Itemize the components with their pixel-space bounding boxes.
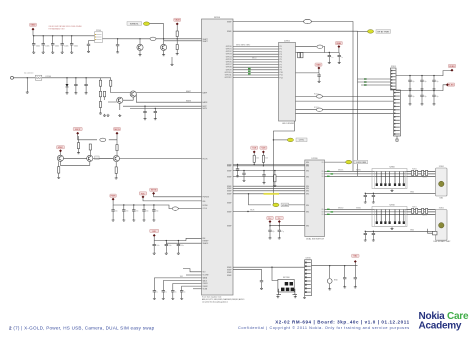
svg-text:X2800: X2800	[389, 166, 394, 168]
wire T2-T3	[93, 157, 113, 159]
power management IC N2200	[202, 19, 234, 295]
cap stubs	[88, 41, 90, 51]
svg-text:1.8/3V SIM: 1.8/3V SIM	[356, 162, 367, 164]
mic ground left	[276, 295, 279, 297]
dot VLED	[446, 83, 449, 86]
ptc fuse R2201	[150, 37, 156, 40]
cap stub	[42, 36, 44, 44]
svg-text:2 (7) | X-GOLD, Power, HS US: 2 (7) | X-GOLD, Power, HS USB, Camera, D…	[9, 325, 155, 330]
svg-text:R2812: R2812	[422, 215, 427, 217]
svg-text:10p: 10p	[424, 81, 427, 83]
wire D2280 in9	[233, 211, 305, 213]
svg-text:SIMIF: SIMIF	[227, 194, 232, 196]
ground	[236, 175, 239, 177]
svg-text:1u: 1u	[156, 291, 158, 293]
wire to highlight ellipse	[273, 139, 287, 141]
net label box RF BT PWR	[376, 30, 391, 34]
stub to ellipse	[358, 30, 368, 32]
resistor R2218	[116, 145, 118, 151]
svg-text:VSIM2: VSIM2	[203, 286, 208, 288]
transistor V2204	[117, 97, 123, 103]
LED driver IC D2801	[279, 43, 296, 122]
capacitor C2210	[116, 45, 119, 46]
stubs	[154, 108, 156, 117]
stubs	[115, 162, 117, 177]
SIM2 card holder X2811	[436, 210, 448, 241]
D2801 pin box pair	[298, 52, 300, 58]
svg-text:ROW0: ROW0	[203, 205, 208, 207]
ground	[409, 103, 412, 105]
switch wire	[428, 229, 433, 233]
svg-text:47p: 47p	[126, 211, 129, 213]
junction	[409, 75, 410, 76]
resistor R2219	[58, 167, 60, 174]
capacitor C2290	[260, 281, 263, 282]
wire to mic	[272, 267, 278, 280]
short jog wire	[183, 269, 202, 272]
junction	[365, 193, 366, 194]
varistor R2290	[327, 279, 332, 284]
green mark SRST2	[327, 214, 330, 215]
stub	[409, 82, 411, 88]
ground	[263, 181, 266, 183]
capacitor C2250	[153, 291, 156, 292]
BSI dot	[153, 234, 156, 237]
svg-text:VBUS: VBUS	[250, 210, 254, 212]
resistor R2222	[115, 167, 117, 174]
svg-text:10k: 10k	[256, 158, 259, 160]
bottom flex connector X2816	[305, 260, 312, 296]
wire to N2200	[178, 208, 201, 210]
N2200 right pin labels	[227, 21, 232, 276]
SIM2 connector inner outline	[375, 209, 406, 226]
wire USB pair to D2280	[270, 225, 305, 227]
svg-text:VBAT: VBAT	[175, 19, 181, 22]
svg-text:GND: GND	[410, 192, 415, 194]
svg-text:RF BT PWR: RF BT PWR	[378, 31, 390, 33]
stub	[133, 211, 135, 219]
cap stub	[117, 39, 119, 51]
junction	[254, 164, 255, 165]
wires into X2815	[358, 79, 391, 85]
junction	[269, 225, 270, 226]
ground	[66, 92, 69, 94]
transistor V2205	[130, 91, 136, 97]
stubs	[354, 266, 356, 286]
junction	[117, 38, 118, 39]
svg-text:100n: 100n	[74, 45, 78, 47]
cap stub	[33, 36, 35, 44]
svg-text:KEYB: KEYB	[151, 190, 157, 192]
svg-text:VCORE: VCORE	[203, 275, 210, 277]
svg-text:VUSB: VUSB	[282, 205, 288, 207]
capacitor C2282	[262, 175, 265, 176]
ground	[243, 179, 246, 181]
capacitor C2272	[432, 80, 435, 81]
dot	[317, 67, 320, 70]
ground	[77, 151, 80, 153]
wire to X2815 r3	[322, 109, 393, 111]
ground	[409, 88, 412, 90]
SIM1 card holder X2801	[436, 168, 448, 196]
junction	[163, 38, 164, 39]
capacitor C2253	[180, 291, 183, 292]
wire to C2252	[173, 284, 202, 291]
stub	[278, 232, 280, 237]
wire to X2815 r2	[296, 100, 394, 102]
svg-text:VBAT: VBAT	[336, 42, 342, 45]
svg-text:47p: 47p	[146, 211, 149, 213]
SIM1 ground	[391, 189, 394, 191]
capacitor C2234	[152, 210, 155, 211]
svg-text:X2816: X2816	[305, 258, 310, 260]
cap stub	[52, 36, 54, 44]
net label VBAT D2801	[335, 42, 342, 45]
wire out5	[296, 109, 317, 111]
stub	[123, 205, 125, 210]
net label VBAT	[30, 23, 37, 26]
stub wire	[193, 288, 202, 290]
diode stubs	[66, 78, 68, 92]
stub	[421, 76, 423, 81]
stubs	[270, 223, 279, 226]
ground	[61, 51, 64, 53]
stubs	[75, 78, 77, 92]
net label VLED	[447, 83, 455, 86]
ground	[171, 297, 174, 299]
dot	[278, 220, 281, 223]
ground	[180, 297, 183, 299]
cap stub	[33, 45, 35, 51]
junction	[62, 35, 63, 36]
svg-text:PWR: PWR	[111, 196, 116, 198]
wire T1-T2	[64, 157, 87, 159]
capacitor C2811	[364, 233, 367, 234]
capacitor C2202	[51, 44, 54, 45]
ground	[153, 297, 156, 299]
stubs	[243, 171, 245, 180]
svg-text:D2280: D2280	[312, 158, 319, 160]
mic mounting legs	[277, 289, 298, 295]
svg-text:R2802: R2802	[422, 177, 427, 179]
capacitor C2281	[420, 95, 423, 96]
resistor R2203	[176, 45, 178, 50]
net label DM	[275, 216, 283, 219]
junction	[52, 35, 53, 36]
ground	[372, 239, 375, 241]
stub	[433, 76, 435, 81]
net highlight VSIM	[367, 30, 373, 34]
wire N2200 to X2816 row1	[233, 266, 305, 268]
svg-text:PWRON: PWRON	[203, 197, 210, 199]
dot	[152, 192, 155, 195]
ground	[273, 184, 276, 186]
wire bend after R2261	[323, 47, 324, 53]
N2200 to D2801 bus wires	[233, 46, 279, 77]
svg-text:VSIM2: VSIM2	[356, 208, 361, 210]
junction	[273, 139, 274, 140]
ground	[122, 219, 125, 221]
net label VBAT top	[174, 18, 181, 21]
ground mid	[171, 63, 174, 65]
stubs	[338, 53, 340, 62]
svg-text:DUAL SIM SWITCH: DUAL SIM SWITCH	[306, 238, 324, 241]
ground	[143, 219, 146, 221]
svg-text:KBC0: KBC0	[252, 57, 256, 59]
D2280 to SIM2 wires	[325, 209, 436, 214]
wire PWR bus	[113, 200, 172, 208]
wire D2801 down-left	[273, 121, 294, 205]
dot	[337, 45, 340, 48]
ground	[42, 51, 45, 53]
ground	[421, 88, 424, 90]
green mark SCLK1	[331, 173, 334, 174]
SIM2 contact pins	[376, 210, 405, 225]
capacitor C2201	[42, 44, 45, 45]
stub	[165, 246, 167, 252]
capacitor C2271	[420, 80, 423, 81]
N2200 left pin labels	[203, 38, 210, 291]
resistor R2213	[103, 91, 105, 97]
svg-text:P12: P12	[280, 77, 283, 79]
highlighted net segment USB	[264, 193, 280, 195]
X2816 ground	[303, 296, 306, 298]
wire to C2250	[154, 278, 201, 291]
capacitor C2232	[132, 210, 135, 211]
svg-text:VMIC: VMIC	[58, 147, 64, 149]
wire D2280 in3	[233, 170, 305, 172]
svg-text:X2810: X2810	[389, 204, 394, 206]
dot	[253, 150, 256, 153]
resistor R2263	[316, 108, 322, 111]
svg-text:10p: 10p	[424, 96, 427, 98]
capacitor C2280	[236, 169, 239, 170]
ground	[177, 252, 180, 254]
wire VBACK	[233, 21, 304, 23]
wire to SIM1 ellipse	[325, 161, 346, 163]
resistor R2212	[99, 91, 101, 97]
ground	[421, 103, 424, 105]
VBJ dot	[354, 260, 357, 263]
mic wire left	[78, 134, 97, 140]
stub	[153, 205, 155, 210]
svg-text:EARP: EARP	[186, 90, 192, 93]
svg-text:SIMIF: SIMIF	[227, 21, 232, 23]
wire to C2253	[182, 286, 202, 291]
stub	[112, 211, 114, 219]
resistor stubs	[254, 153, 263, 166]
svg-text:MICP: MICP	[75, 129, 81, 131]
capacitor C2219	[154, 111, 157, 112]
D2280 to SIM1 wires	[325, 171, 436, 176]
wire to N2200 row4	[130, 107, 202, 109]
stubs	[318, 73, 320, 80]
capacitor C2801	[364, 195, 367, 196]
wire D2280 in5	[233, 185, 305, 187]
resistor pack R2801	[412, 170, 414, 175]
ground	[70, 51, 73, 53]
ground	[372, 201, 375, 203]
capacitor C2263	[317, 75, 320, 76]
green mark	[364, 84, 367, 85]
resistor pack R2812	[422, 208, 424, 213]
SIM interface IC D2280	[305, 160, 325, 237]
svg-text:VKBD: VKBD	[449, 66, 455, 68]
stub	[116, 151, 118, 156]
stub	[133, 205, 135, 210]
stubs	[58, 161, 60, 176]
D2280 pin labels	[306, 162, 324, 228]
stub to ground	[26, 78, 28, 91]
svg-text:X2815: X2815	[391, 66, 396, 68]
diode V2202	[66, 84, 69, 87]
cap stub	[71, 45, 73, 51]
stub	[354, 263, 356, 266]
capacitor C2261	[328, 55, 331, 56]
capacitor C2802	[372, 195, 375, 196]
green mark GND1	[248, 68, 251, 69]
svg-text:47p: 47p	[136, 211, 139, 213]
svg-text:Academy: Academy	[419, 320, 462, 331]
junction	[143, 204, 144, 205]
stub wire	[186, 274, 202, 276]
ground	[115, 177, 118, 179]
svg-text:see pinlist for decoupling gui: see pinlist for decoupling guidance	[202, 300, 228, 303]
junction	[373, 231, 374, 232]
net highlight ellipse	[143, 22, 149, 26]
capacitor C2282	[432, 95, 435, 96]
stub	[153, 211, 155, 219]
svg-text:SIM1: SIM1	[439, 197, 443, 199]
svg-text:LED DRIVER: LED DRIVER	[282, 123, 295, 125]
net label DP	[267, 216, 274, 219]
stub	[421, 91, 423, 96]
SIM1 gnd wire	[365, 192, 435, 194]
green mark SIO1	[327, 171, 330, 172]
EMI filter module Z2200	[95, 32, 103, 43]
svg-text:10p: 10p	[412, 81, 415, 83]
stub	[433, 82, 435, 88]
stub to filter	[89, 40, 95, 42]
junction	[178, 240, 179, 241]
keyboard flex connector X2815 upper	[391, 68, 397, 90]
cap stub	[61, 45, 63, 51]
stub	[162, 292, 164, 297]
SIM1 to holder wires	[407, 171, 436, 176]
svg-text:10p: 10p	[412, 96, 415, 98]
svg-text:HOOK: HOOK	[203, 159, 209, 161]
stubs	[85, 78, 87, 92]
stub	[409, 91, 411, 96]
ground	[57, 176, 60, 178]
ground	[132, 219, 135, 221]
stub	[172, 292, 174, 297]
resistor R2220	[77, 143, 79, 149]
fuse F2200	[35, 75, 41, 80]
stub	[153, 246, 155, 252]
stubs	[101, 97, 105, 112]
amp coupling wires	[108, 97, 133, 102]
junction	[409, 90, 410, 91]
resistor R2210	[99, 80, 101, 86]
VMIC dot	[59, 149, 62, 152]
svg-text:1u: 1u	[175, 291, 177, 293]
wire row2	[166, 241, 201, 244]
green mark	[364, 81, 367, 82]
stub	[153, 292, 155, 297]
transistor V2201	[161, 44, 167, 50]
net label MICN	[114, 127, 121, 130]
SIM1 connector outline X2800	[372, 169, 407, 189]
svg-text:100n: 100n	[156, 245, 160, 247]
capacitor C2206	[87, 44, 90, 45]
junction	[279, 225, 280, 226]
VBAT net dot	[32, 28, 35, 31]
stub	[153, 241, 155, 245]
cap stub	[71, 36, 73, 44]
ground	[74, 92, 77, 94]
green mark SIO2	[327, 209, 330, 210]
svg-text:SIMIF: SIMIF	[227, 226, 232, 228]
capacitor C2281	[242, 173, 245, 174]
microphone module S2801	[278, 279, 294, 292]
junction VUSB	[273, 204, 274, 205]
resistor R2281	[253, 155, 255, 162]
net label VKBD	[448, 64, 456, 67]
ground	[154, 117, 157, 119]
stubs	[364, 231, 366, 238]
stubs	[344, 266, 346, 286]
svg-text:VBATT: VBATT	[203, 40, 208, 43]
svg-text:Confidential | Copyright © 2: Confidential | Copyright © 2011 Nokia. O…	[238, 326, 410, 330]
ground	[112, 219, 115, 221]
capacitor C2292	[354, 278, 357, 279]
svg-text:100n: 100n	[180, 245, 184, 247]
svg-text:100n: 100n	[64, 45, 68, 47]
net label V18	[251, 146, 258, 149]
junction	[71, 35, 72, 36]
junction	[243, 170, 244, 171]
junction	[329, 52, 330, 53]
svg-text:Z2200: Z2200	[96, 30, 101, 32]
svg-text:SIMIO1: SIMIO1	[338, 170, 344, 172]
junction	[263, 170, 264, 171]
capacitor C2204	[70, 44, 73, 45]
svg-text:CTRL: CTRL	[299, 140, 305, 142]
ground	[176, 52, 179, 54]
dot	[112, 198, 115, 201]
ground	[103, 114, 106, 116]
stub	[433, 97, 435, 103]
mic ground right	[294, 295, 297, 297]
stubs	[263, 171, 265, 182]
mic wire right	[109, 134, 117, 144]
junction	[139, 38, 140, 39]
net highlight middle	[287, 138, 293, 142]
net label box CTRL	[296, 138, 307, 142]
ground	[328, 288, 331, 290]
stubs	[120, 97, 133, 110]
emitter tie wire	[60, 161, 89, 165]
svg-text:10k: 10k	[265, 158, 268, 160]
junction	[27, 77, 28, 78]
stub	[177, 241, 179, 245]
svg-text:100n: 100n	[168, 245, 172, 247]
net label KEYB	[150, 188, 158, 191]
svg-text:SIMIF: SIMIF	[227, 191, 232, 193]
wire VBACK vertical to SIM1	[311, 22, 353, 172]
ground	[364, 201, 367, 203]
